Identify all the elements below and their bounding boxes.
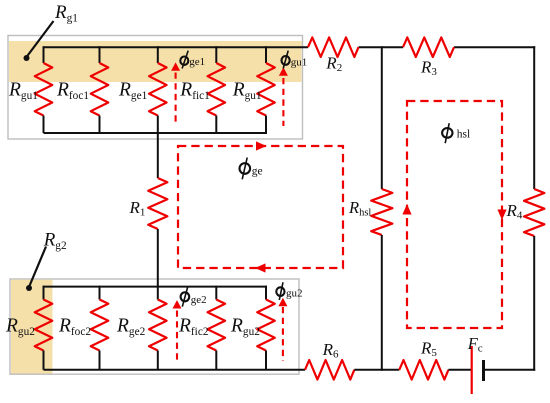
resistor Rfic1 top stub [215,46,217,63]
resistor R2 zigzag [308,37,359,57]
resistor Rfoc1 zigzag [91,63,109,116]
svg-text:ge2: ge2 [191,294,207,306]
resistor Rge2 zigzag [149,300,167,351]
wire: top bus from bank1 to R2 [44,46,309,48]
label phi_ge2 [181,292,190,301]
flux arrow phi_gu1 (dashed, up) [282,78,284,126]
wire: top bus junction down to Rhsl [381,46,383,189]
wire: between R2 and R3 [359,46,404,48]
resistor Rgu2-b bottom stub [265,351,267,370]
phi_hsl loop arrowhead (right edge, downward) [497,210,506,221]
resistor R5 zigzag [399,360,448,380]
leader line to Rg2 [29,247,46,288]
label phi_hsl [442,128,452,138]
resistor Rfoc2 top stub [99,286,101,300]
phi_ge loop arrowhead (top edge, rightward) [256,141,267,150]
wire: bank2 bottom bus continuing to R6 [44,369,306,371]
wire: bank1 bottom to R1 [157,133,159,178]
resistor Rge2 bottom stub [157,351,159,370]
resistor R4 zigzag [524,189,544,236]
resistor Rhsl zigzag [371,189,392,235]
wire: Fc to bottom-right corner [485,369,536,371]
wire: right edge upper [533,46,535,189]
resistor Rgu2-a zigzag [35,300,53,351]
label phi_ge1 [180,57,188,65]
resistor Rfoc1 top stub [99,46,101,63]
resistor Rfic1 zigzag [208,63,226,116]
leader line to Rg1 [27,21,54,57]
label phi_gu1 [282,56,290,65]
yellow highlight band in box 1 [9,41,302,82]
resistor Rge2 top stub [157,286,159,300]
wire: R1 to bank2 top [157,229,159,287]
gap region box 1 (top, gray border) [8,36,303,140]
resistor Rge1 bottom stub [157,116,159,134]
resistor Rge1 top stub [157,46,159,63]
wire: R5 to Fc [448,369,471,371]
resistor Rfic2 bottom stub [215,351,217,370]
label phi_gu2 [276,287,284,296]
svg-text:hsl: hsl [457,129,470,141]
svg-text:gu2: gu2 [286,288,303,300]
resistor Rfic1 bottom stub [215,116,217,134]
flux loop phi_ge (dashed rectangle, clockwise) [178,146,343,268]
resistor Rge1 zigzag [149,63,167,116]
svg-text:ge1: ge1 [189,56,205,68]
wire: bank1 bottom bus [44,132,268,134]
wire: R6 to R5 (through Rhsl junction) [354,369,399,371]
flux loop phi_hsl (dashed rectangle) [407,101,502,328]
flux arrow phi_gu2 (dashed, up) [282,307,284,361]
wire: Rhsl to bottom bus [381,235,383,371]
flux arrow phi_ge2 (dashed, up) [176,311,178,362]
resistor Rfoc1 bottom stub [99,116,101,134]
mmf source Fc: short plate (black) [482,360,485,381]
wire: bank2 top bus [44,286,268,288]
resistor Rgu2-a top stub [43,286,45,300]
resistor Rgu2-b top stub [265,286,267,300]
leader dot (node in gap region 2) [26,285,32,291]
resistor Rgu1-a zigzag [35,63,53,116]
svg-text:gu1: gu1 [291,56,308,68]
resistor Rgu1-b zigzag [257,63,275,116]
svg-text:ge: ge [252,166,263,178]
resistor Rgu1-a top stub [43,46,45,63]
yellow highlight strip in box 2 [11,280,53,374]
resistor R6 zigzag [305,360,354,380]
resistor Rfic2 zigzag [208,300,226,351]
phi_ge loop arrowhead (bottom edge, leftward) [255,263,266,272]
resistor Rfic2 top stub [215,286,217,300]
label phi_ge [240,163,251,174]
resistor R1 zigzag [148,178,167,229]
wire: right edge lower [533,236,535,371]
resistor Rgu1-b top stub [265,46,267,63]
leader dot (node in gap region 1) [24,55,30,61]
resistor Rfoc2 bottom stub [99,351,101,370]
flux arrow phi_ge1 (dashed, up) [175,73,177,125]
phi_hsl loop arrowhead (left edge, upward) [402,204,411,215]
resistor Rfoc2 zigzag [91,300,109,351]
wire: R3 to top-right corner [454,46,535,48]
gap region box 2 (bottom, gray border) [10,279,299,374]
resistor Rgu1-b bottom stub [265,116,267,134]
mmf source Fc: long plate (red) [471,346,473,394]
resistor Rgu2-b zigzag [257,300,275,351]
resistor Rgu2-a bottom stub [43,351,45,370]
resistor Rgu1-a bottom stub [43,116,45,134]
resistor R3 zigzag [403,37,454,57]
